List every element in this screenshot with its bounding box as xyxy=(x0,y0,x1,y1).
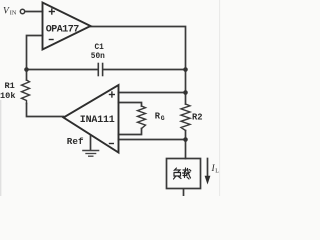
svg-text:50n: 50n xyxy=(91,53,105,61)
svg-text:G: G xyxy=(161,115,165,122)
svg-text:IN: IN xyxy=(10,10,17,17)
svg-text:10k: 10k xyxy=(0,91,15,101)
svg-text:L: L xyxy=(215,169,219,175)
svg-text:R1: R1 xyxy=(5,81,15,91)
svg-text:C1: C1 xyxy=(95,44,105,52)
svg-text:INA111: INA111 xyxy=(80,115,115,126)
svg-text:R2: R2 xyxy=(192,112,203,122)
svg-text:OPA177: OPA177 xyxy=(46,24,80,35)
svg-text:Ref: Ref xyxy=(67,136,84,147)
